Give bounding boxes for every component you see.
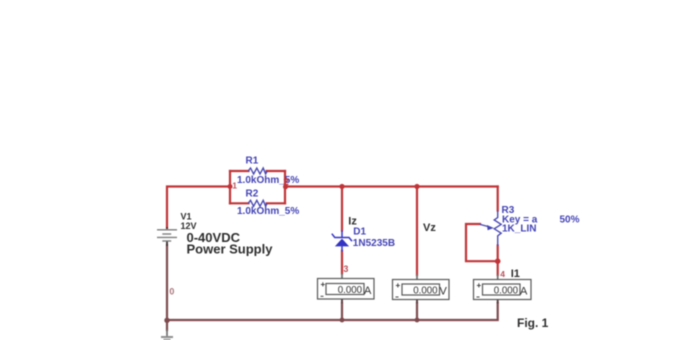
svg-text:1N5235B: 1N5235B: [353, 238, 395, 249]
svg-text:+: +: [321, 280, 326, 289]
svg-text:1.0kOhm_5%: 1.0kOhm_5%: [237, 175, 299, 186]
svg-text:D1: D1: [353, 227, 366, 238]
svg-text:0.000: 0.000: [413, 285, 438, 296]
svg-text:50%: 50%: [560, 214, 580, 225]
svg-text:R2: R2: [246, 188, 259, 199]
svg-text:1.0kOhm_5%: 1.0kOhm_5%: [237, 206, 299, 217]
svg-text:3: 3: [343, 264, 348, 274]
svg-text:0.000: 0.000: [338, 285, 363, 296]
svg-text:V1: V1: [181, 212, 192, 222]
svg-text:+: +: [396, 281, 401, 290]
svg-text:Vz: Vz: [423, 222, 436, 234]
svg-text:Fig. 1: Fig. 1: [517, 316, 549, 330]
svg-text:+: +: [477, 281, 482, 290]
svg-text:R1: R1: [246, 156, 259, 167]
svg-text:1K_LIN: 1K_LIN: [502, 223, 536, 234]
svg-text:A: A: [364, 285, 372, 297]
svg-text:V: V: [440, 286, 448, 298]
svg-text:I1: I1: [511, 268, 520, 280]
svg-text:0: 0: [169, 286, 174, 296]
svg-text:0.000: 0.000: [494, 285, 519, 296]
svg-text:A: A: [520, 286, 528, 298]
svg-text:Power Supply: Power Supply: [187, 241, 274, 256]
svg-text:4: 4: [500, 269, 505, 279]
svg-text:2: 2: [283, 177, 289, 188]
svg-text:Iz: Iz: [348, 215, 357, 227]
svg-text:1: 1: [232, 180, 237, 190]
